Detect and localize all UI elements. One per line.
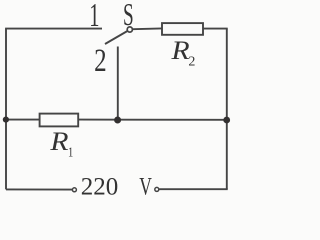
junction node: switch branch / middle wire: [114, 117, 121, 124]
svg-text:S: S: [123, 0, 134, 32]
wire: middle run left segment: [6, 119, 40, 121]
wire: switch contact 2 drop to middle node: [117, 47, 119, 121]
junction node: left edge / middle wire: [3, 117, 9, 123]
resistor R1 box: [40, 114, 79, 127]
svg-text:1: 1: [68, 144, 73, 160]
wire: left edge of loop: [5, 29, 7, 190]
switch S pivot circle: [127, 27, 132, 32]
wire: top run to switch contact 1: [5, 28, 102, 30]
wire: middle run right segment: [78, 119, 227, 121]
svg-text:R: R: [49, 127, 68, 156]
svg-text:2: 2: [94, 43, 107, 79]
svg-text:2: 2: [188, 54, 195, 69]
wire: right edge of loop: [226, 29, 228, 190]
wire: bottom run right from source terminal: [159, 188, 228, 190]
resistor R2 box: [162, 23, 203, 35]
source terminal circle left: [72, 188, 76, 192]
svg-text:220: 220: [81, 174, 119, 201]
label R1: [49, 127, 73, 160]
label R2: [170, 36, 195, 69]
source terminal circle right: [155, 187, 159, 191]
svg-text:R: R: [170, 36, 189, 65]
wire: R2 to right edge: [203, 28, 228, 30]
svg-text:V: V: [139, 172, 152, 200]
junction node: right edge / middle wire: [223, 117, 230, 124]
wire: bottom run left to source terminal: [6, 188, 72, 190]
label 220 V: [81, 172, 152, 200]
svg-text:1: 1: [89, 0, 99, 34]
wire: switch pivot to R2: [133, 27, 162, 30]
switch S blade: [105, 31, 127, 44]
